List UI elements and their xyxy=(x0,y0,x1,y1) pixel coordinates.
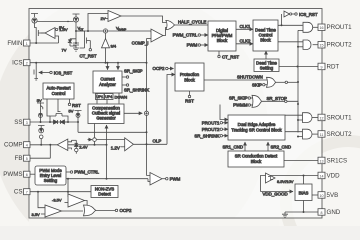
svg-text:5VB: 5VB xyxy=(327,192,339,199)
wire CS to comp A xyxy=(38,192,45,208)
node VCT xyxy=(75,22,84,43)
svg-text:SR_SHRINK: SR_SHRINK xyxy=(124,88,149,93)
wire SR1_CND xyxy=(223,142,246,151)
svg-text:SR_STOP: SR_STOP xyxy=(267,96,287,101)
wire SR2_CND xyxy=(268,142,291,151)
pin VDD 14 xyxy=(318,172,340,179)
svg-text:2.4V: 2.4V xyxy=(79,144,88,149)
svg-text:SR_SKIP: SR_SKIP xyxy=(124,69,143,74)
gate XOR HALF_CYCLE xyxy=(163,19,208,35)
svg-text:BIAS: BIAS xyxy=(299,191,309,196)
summer compensation into COMP_I xyxy=(124,111,149,115)
5V rail bar FMIN xyxy=(31,14,38,18)
svg-text:PWMS: PWMS xyxy=(3,171,22,178)
wire COMP xyxy=(30,144,108,146)
pin COMP 4 xyxy=(4,142,30,149)
zener 7V xyxy=(62,39,77,53)
svg-text:COMP_I: COMP_I xyxy=(132,41,149,46)
signal CT_RST gate xyxy=(79,41,96,59)
svg-text:PWM: PWM xyxy=(170,176,181,181)
signal OCP2 into protection xyxy=(153,66,174,71)
svg-text:PWMM: PWMM xyxy=(233,103,248,108)
svg-text:Setting: Setting xyxy=(44,178,58,183)
svg-text:7V: 7V xyxy=(62,48,67,53)
5V source COMP pull-up xyxy=(38,126,45,145)
current source I_FMIN xyxy=(32,18,37,23)
op-amp COMP clamp xyxy=(57,139,71,151)
svg-text:CS: CS xyxy=(14,189,23,196)
5V source right SS xyxy=(69,109,82,123)
wire SS down to comp rail xyxy=(78,122,148,133)
wire cutback feedback into compensation box xyxy=(106,125,108,179)
svg-text:VDD: VDD xyxy=(327,172,341,179)
wire VDD to BIAS xyxy=(303,176,305,185)
svg-text:5V: 5V xyxy=(69,109,74,114)
pin SR1CS 13 xyxy=(318,157,347,164)
wire CLK1 xyxy=(236,24,253,29)
svg-text:3: 3 xyxy=(26,121,28,125)
wire CS xyxy=(30,191,91,193)
signal SR_SKIP out xyxy=(122,69,143,79)
block Protection Block xyxy=(175,63,204,91)
signal ICS_RST discharge xyxy=(42,71,73,76)
comparator PWM (COMP_I) xyxy=(132,29,163,46)
svg-text:10: 10 xyxy=(320,194,324,198)
svg-text:CLK2: CLK2 xyxy=(240,39,252,44)
wire CS to comp B xyxy=(68,179,70,197)
svg-text:SR2_CND: SR2_CND xyxy=(271,144,292,149)
svg-text:7: 7 xyxy=(26,191,28,195)
svg-text:Control: Control xyxy=(52,91,66,96)
ground BIAS xyxy=(282,212,288,217)
wire mirror bus xyxy=(37,21,73,22)
svg-text:ICS: ICS xyxy=(12,60,22,67)
signal PWM_CTRL out xyxy=(66,170,99,175)
wire RDT to DTS xyxy=(279,66,318,68)
svg-text:Block: Block xyxy=(217,38,228,43)
node circle compensation to COMP xyxy=(88,124,125,145)
wire VDD xyxy=(261,175,319,192)
svg-text:FMIN: FMIN xyxy=(7,40,22,47)
svg-text:Auto-Restart: Auto-Restart xyxy=(46,86,71,91)
svg-text:Current: Current xyxy=(100,77,115,82)
svg-text:SR1_CND: SR1_CND xyxy=(223,144,244,149)
gate OR shutdown xyxy=(267,77,299,87)
gate OR OCP2 xyxy=(84,205,133,216)
IC outline border xyxy=(29,9,322,219)
ground CT xyxy=(73,48,79,51)
5V source left SS xyxy=(37,98,44,122)
wire ICS xyxy=(30,62,148,64)
svg-text:Detect: Detect xyxy=(98,192,111,197)
svg-text:1: 1 xyxy=(26,42,28,46)
signal SKIP xyxy=(252,82,268,87)
gate AND SROUT2 xyxy=(285,129,318,139)
svg-text:3/4: 3/4 xyxy=(111,44,117,49)
wire DTS to DTC xyxy=(265,51,267,59)
op-amp A1 1.5V xyxy=(41,27,68,43)
signal PWM_CTRL in xyxy=(173,33,208,38)
label DOWN xyxy=(115,95,128,100)
gate AND PROUT1 xyxy=(298,22,318,32)
pin ICS 2 xyxy=(12,60,30,67)
svg-text:OCP2: OCP2 xyxy=(120,208,133,213)
svg-text:-3.5V: -3.5V xyxy=(52,198,62,203)
diode pair SS xyxy=(50,120,68,124)
svg-text:SS: SS xyxy=(14,119,22,126)
svg-text:6: 6 xyxy=(26,173,28,177)
signal CT_RST out of digital block xyxy=(218,51,240,60)
svg-text:CT_RST: CT_RST xyxy=(222,55,239,60)
block SR Conduction Detect Block xyxy=(228,151,284,167)
wire CLK2 xyxy=(236,39,253,44)
signal SR_SHRINK into SR block xyxy=(194,133,228,138)
gate AND SROUT1 xyxy=(285,113,318,123)
block PWM Mode Entry Level Setting xyxy=(35,166,66,185)
svg-text:PROUT2: PROUT2 xyxy=(202,127,220,132)
svg-text:15: 15 xyxy=(320,44,324,48)
svg-text:8: 8 xyxy=(321,211,323,215)
svg-text:RAMP: RAMP xyxy=(118,27,126,31)
svg-text:5: 5 xyxy=(26,157,28,161)
wire BIAS to 5VB xyxy=(312,194,318,196)
block NON-ZVS Detect xyxy=(91,186,118,198)
gate AND PROUT2 xyxy=(278,40,318,49)
svg-text:OLP: OLP xyxy=(153,138,162,143)
inverter ICS_RST xyxy=(278,11,318,26)
svg-text:Generator: Generator xyxy=(96,116,116,121)
pin 5VB 10 xyxy=(318,192,338,199)
block Dual Edge Adaptive Tracking SR Control Block xyxy=(228,115,285,140)
block Dead Time Control Block xyxy=(253,20,278,51)
svg-text:PWM_CTRL: PWM_CTRL xyxy=(74,170,99,175)
signal RST out xyxy=(68,99,81,108)
svg-text:12: 12 xyxy=(320,116,324,120)
attenuator 3/4 xyxy=(102,33,117,62)
svg-text:UP4: UP4 xyxy=(105,95,112,99)
svg-text:SHUTDOWN: SHUTDOWN xyxy=(237,75,263,80)
gate OR SR_STOP xyxy=(252,95,298,107)
svg-text:SKIP: SKIP xyxy=(252,82,262,87)
block Current Analyzer xyxy=(93,71,122,93)
svg-text:OCP2: OCP2 xyxy=(153,66,166,71)
comparator 1.2V OLP xyxy=(111,138,167,151)
svg-text:PROUT1: PROUT1 xyxy=(327,24,353,31)
svg-text:1.2V: 1.2V xyxy=(111,145,120,150)
pin CS 7 xyxy=(14,189,30,196)
signal PROUT1 into SR block xyxy=(202,120,228,125)
5V rail bar CT xyxy=(59,14,80,30)
signal PWMM in xyxy=(233,103,252,108)
svg-text:SR_SHRINK: SR_SHRINK xyxy=(194,133,219,138)
svg-text:ICS_RST: ICS_RST xyxy=(54,71,73,76)
signal PROUT2 into SR block xyxy=(202,127,228,132)
comparator -3.5V OCP xyxy=(52,194,87,207)
svg-text:RST: RST xyxy=(185,99,194,104)
pin FMIN 1 xyxy=(7,40,30,47)
block Dead Time Setting xyxy=(254,59,279,72)
pin SROUT1 12 xyxy=(318,114,352,121)
pin PROUT1 16 xyxy=(318,24,352,31)
block Digital PFM/PWM Block U-PFM xyxy=(208,21,236,51)
svg-text:Analyzer: Analyzer xyxy=(99,82,116,87)
wire FB xyxy=(30,145,50,158)
svg-text:Tracking SR Control Block: Tracking SR Control Block xyxy=(231,128,282,133)
wire auto-restart to SS switch xyxy=(57,99,59,110)
transistor M1 FMIN xyxy=(35,23,46,43)
svg-text:9: 9 xyxy=(321,65,323,69)
pin SS 3 xyxy=(14,119,30,126)
svg-text:CT_RST: CT_RST xyxy=(79,54,96,59)
block BIAS xyxy=(295,184,312,201)
label UP1 xyxy=(96,94,105,100)
svg-text:DOWN: DOWN xyxy=(115,95,128,100)
wire OLP into protection xyxy=(167,75,175,145)
capacitor CT xyxy=(73,43,79,48)
transistor M-CTRST discharge xyxy=(75,31,90,48)
svg-text:Block: Block xyxy=(251,159,262,164)
block Compensation Cutback signal Generator xyxy=(88,104,124,124)
svg-text:RST: RST xyxy=(72,103,81,108)
svg-text:Block: Block xyxy=(184,78,195,83)
wire PWMS xyxy=(30,173,35,175)
signal PWM in xyxy=(187,43,208,48)
wire PWM mode to comparator xyxy=(66,178,150,182)
svg-text:RDT: RDT xyxy=(327,63,340,70)
svg-text:SR1CS: SR1CS xyxy=(327,157,348,164)
signal SR_SHRINK out xyxy=(122,84,149,93)
block Auto-Restart Control xyxy=(43,83,74,99)
svg-text:VDD_GOOD: VDD_GOOD xyxy=(263,192,288,197)
svg-text:SROUT2: SROUT2 xyxy=(327,131,353,138)
svg-text:HALF_CYCLE: HALF_CYCLE xyxy=(178,19,206,24)
comparator 3.5V OCP xyxy=(32,205,84,217)
pin FB 5 xyxy=(15,155,30,162)
diode 2.4V clamp xyxy=(72,140,88,153)
pin RDT 9 xyxy=(318,63,339,70)
svg-text:Protection: Protection xyxy=(180,72,200,77)
svg-text:SR Conduction Detect: SR Conduction Detect xyxy=(235,154,278,159)
wire SR conduction to SR1CS xyxy=(284,160,318,162)
svg-text:GND: GND xyxy=(327,209,341,216)
wire SHUTDOWN xyxy=(204,75,267,80)
svg-text:Block: Block xyxy=(260,38,271,43)
svg-text:CLK1: CLK1 xyxy=(240,24,252,29)
svg-text:5V: 5V xyxy=(59,25,64,30)
pin PROUT2 15 xyxy=(318,42,352,49)
wire top input into SR block xyxy=(220,105,228,120)
wires analyzer to compensation xyxy=(97,93,119,104)
svg-text:Dual Edge Adaptive: Dual Edge Adaptive xyxy=(238,122,276,127)
label UP4 xyxy=(105,94,114,100)
pin GND 8 xyxy=(318,209,341,216)
wire SS xyxy=(30,121,79,123)
wire BIAS to GND xyxy=(285,201,318,214)
wire FMIN node xyxy=(30,42,59,44)
pin SROUT2 11 xyxy=(318,131,352,138)
svg-text:14: 14 xyxy=(320,174,324,178)
wire auto-restart to SS loop xyxy=(47,99,50,116)
svg-text:5V: 5V xyxy=(37,98,42,103)
comparator 2V (VCT peak) xyxy=(87,11,121,33)
signal SR_SKIP in xyxy=(229,96,253,101)
svg-text:8.5V/10V: 8.5V/10V xyxy=(277,179,294,184)
wire COMP_I vertical xyxy=(147,39,151,176)
switch RST bypass xyxy=(50,110,68,122)
svg-text:FB: FB xyxy=(15,155,23,162)
wire 2V comp out to gate xyxy=(121,16,166,23)
svg-text:3.5V: 3.5V xyxy=(32,212,41,217)
svg-text:4: 4 xyxy=(26,144,28,148)
svg-text:11: 11 xyxy=(320,133,324,137)
pin PWMS 6 xyxy=(3,171,30,178)
svg-text:SROUT1: SROUT1 xyxy=(327,114,353,121)
wire disable vertical xyxy=(297,30,299,132)
current source I_CT xyxy=(73,17,78,22)
svg-text:PWM: PWM xyxy=(187,43,198,48)
transistor ICS discharge xyxy=(34,63,41,80)
wire ICS into current analyzer xyxy=(107,62,109,70)
svg-text:COMP: COMP xyxy=(4,142,23,149)
svg-text:SR_SKIP: SR_SKIP xyxy=(229,96,248,101)
svg-text:PWM_CTRL: PWM_CTRL xyxy=(173,33,198,38)
svg-text:ICS_RST: ICS_RST xyxy=(299,12,318,17)
summer VCT+ICS xyxy=(77,25,151,33)
svg-text:13: 13 xyxy=(320,159,324,163)
wire ICS into current analyzer 2 xyxy=(117,62,119,70)
comparator UVLO 8.5V/10V xyxy=(263,173,294,197)
comparator PWM detect xyxy=(150,173,181,186)
svg-text:PROUT1: PROUT1 xyxy=(202,120,220,125)
svg-text:Setting: Setting xyxy=(260,66,274,71)
svg-text:16: 16 xyxy=(320,26,324,30)
svg-text:2: 2 xyxy=(26,62,28,66)
signal RST protection xyxy=(185,91,194,104)
svg-text:PROUT2: PROUT2 xyxy=(327,42,353,49)
